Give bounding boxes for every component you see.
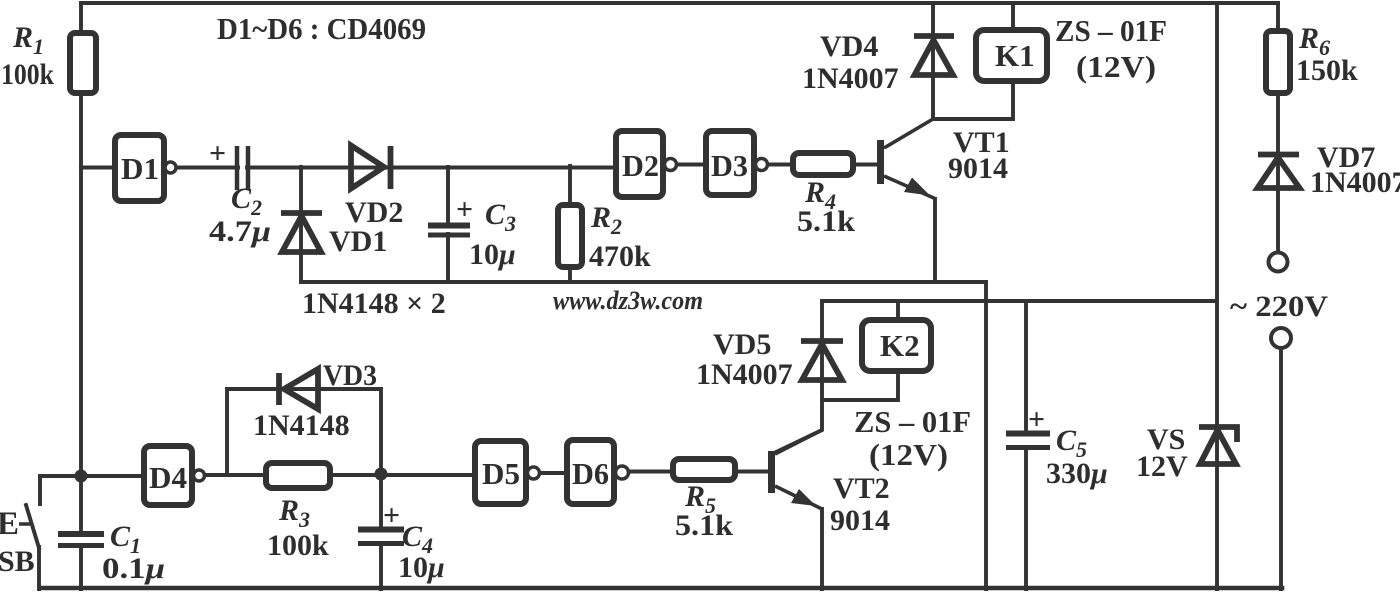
wire VD4 drop — [931, 3, 935, 119]
diode VD2 — [351, 146, 391, 190]
svg-text:D5: D5 — [482, 456, 520, 491]
svg-text:D2: D2 — [622, 148, 659, 183]
svg-text:D4: D4 — [149, 460, 187, 495]
svg-text:5.1k: 5.1k — [797, 205, 855, 238]
gate D2 — [616, 131, 663, 197]
svg-text:VD1: VD1 — [329, 225, 387, 258]
gate D5 — [475, 441, 526, 504]
svg-text:+: + — [1028, 403, 1045, 436]
svg-text:10μ: 10μ — [469, 238, 516, 271]
gate D6 — [567, 440, 614, 504]
svg-text:(12V): (12V) — [1076, 49, 1156, 84]
gate D1 — [115, 135, 164, 201]
wire right drop x986 — [984, 282, 988, 589]
svg-text:D3: D3 — [711, 148, 748, 183]
terminal ~220V upper — [1269, 253, 1288, 272]
wire lower bus — [301, 280, 986, 284]
wire 220V lower lead — [1279, 347, 1283, 589]
svg-text:150k: 150k — [1296, 54, 1358, 87]
capacitor C1 — [58, 534, 104, 546]
resistor R5 — [673, 459, 735, 480]
node junction left rail / D4 input — [75, 470, 88, 483]
svg-text:5.1k: 5.1k — [675, 509, 733, 542]
svg-text:1N4007: 1N4007 — [802, 62, 899, 95]
wire K1 leads — [933, 3, 1013, 119]
svg-text:R3: R3 — [278, 494, 310, 532]
svg-text:VD2: VD2 — [345, 196, 403, 229]
svg-text:C3: C3 — [485, 198, 516, 236]
diode VD7 — [1258, 155, 1300, 189]
svg-text:0.1μ: 0.1μ — [102, 552, 165, 585]
wire C3 tap — [446, 167, 450, 282]
wire left rail — [79, 3, 83, 589]
svg-text:VD4: VD4 — [820, 30, 878, 63]
svg-text:1N4007: 1N4007 — [1310, 166, 1400, 199]
svg-text:K1: K1 — [995, 38, 1035, 73]
resistor R3 — [266, 463, 330, 488]
svg-text:4.7μ: 4.7μ — [209, 215, 271, 248]
svg-text:R1: R1 — [12, 21, 44, 59]
capacitor C5 — [1006, 434, 1050, 448]
capacitor C3 — [428, 226, 470, 236]
resistor R4 — [793, 153, 853, 175]
resistor R1 — [70, 33, 96, 93]
relay K1 — [976, 30, 1047, 81]
wire top row — [81, 165, 878, 168]
svg-text:100k: 100k — [1, 58, 54, 91]
capacitor C2 — [237, 146, 248, 190]
wire VT1 emitter — [933, 199, 937, 282]
wire R2 tap — [568, 166, 572, 282]
svg-text:+: + — [209, 137, 226, 170]
wire VD3 loop — [227, 389, 381, 474]
svg-text:ZS – 01F: ZS – 01F — [1055, 13, 1167, 48]
wire VD5 K2 loop — [822, 301, 898, 400]
svg-text:D6: D6 — [572, 456, 609, 491]
gate D3 — [706, 131, 754, 195]
capacitor C4 — [358, 530, 404, 544]
svg-text:1N4148 × 2: 1N4148 × 2 — [302, 287, 446, 320]
gate D4 — [144, 446, 192, 505]
diode VD5 — [801, 341, 843, 380]
svg-text:12V: 12V — [1136, 450, 1188, 483]
wire C5 lead — [1024, 301, 1028, 589]
svg-text:+: + — [383, 499, 400, 532]
transistor Q2 VT2 — [768, 430, 822, 509]
svg-text:E: E — [0, 506, 19, 542]
svg-text:VT2: VT2 — [833, 472, 890, 505]
svg-text:(12V): (12V) — [869, 437, 948, 472]
transistor Q1 VT1 — [877, 119, 936, 199]
wire right rail — [1215, 3, 1219, 589]
wire VT2 emitter — [820, 509, 824, 589]
svg-text:SB: SB — [0, 545, 35, 578]
svg-text:1N4007: 1N4007 — [696, 358, 793, 391]
svg-text:VD5: VD5 — [713, 328, 771, 361]
wire relay rail — [822, 299, 1217, 303]
svg-text:K2: K2 — [880, 328, 920, 363]
wire bottom row — [40, 472, 768, 477]
node junction R3 / C4 / D5 input — [375, 468, 388, 481]
wire VT2 collector — [774, 400, 822, 453]
svg-text:9014: 9014 — [830, 504, 890, 537]
diode VD1 — [281, 213, 322, 252]
wire VD1 tap — [299, 167, 303, 282]
terminal ~220V lower — [1271, 328, 1291, 348]
resistor R2 — [558, 205, 582, 267]
svg-text:R2: R2 — [590, 201, 622, 239]
svg-text:10μ: 10μ — [398, 551, 445, 584]
svg-text:330μ: 330μ — [1046, 457, 1108, 490]
wire bottom rail — [40, 586, 1282, 591]
svg-text:VD3: VD3 — [323, 359, 377, 392]
wire R6 VD7 chain — [1276, 3, 1280, 253]
resistor R6 — [1266, 31, 1290, 93]
wire top rail — [81, 1, 1278, 5]
svg-text:9014: 9014 — [948, 152, 1008, 185]
svg-text:+: + — [456, 193, 473, 226]
switch actuator dash — [19, 522, 30, 526]
relay K2 — [862, 320, 931, 371]
svg-text:www.dz3w.com: www.dz3w.com — [553, 286, 703, 315]
svg-text:100k: 100k — [267, 529, 329, 562]
wire C4 lead — [379, 474, 383, 589]
svg-text:D1: D1 — [121, 151, 159, 186]
svg-text:ZS – 01F: ZS – 01F — [854, 404, 971, 439]
svg-text:~ 220V: ~ 220V — [1230, 290, 1328, 323]
zener VS — [1199, 427, 1237, 464]
wire SB switch — [26, 476, 40, 589]
diode VD4 — [914, 36, 954, 75]
svg-text:1N4148: 1N4148 — [253, 409, 350, 442]
svg-text:470k: 470k — [589, 240, 651, 273]
svg-text:D1~D6 : CD4069: D1~D6 : CD4069 — [217, 11, 426, 46]
diode VD3 — [279, 369, 318, 409]
